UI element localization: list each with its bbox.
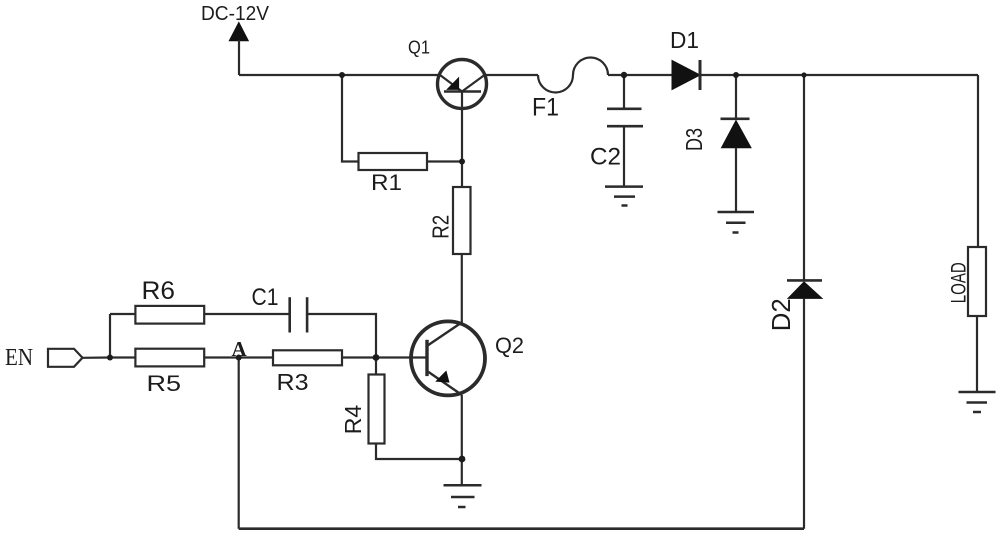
svg-text:Q2: Q2 (495, 333, 524, 358)
svg-text:R3: R3 (277, 369, 309, 395)
wire: fuse to D1 (608, 74, 672, 76)
junction on rail at C2 branch (621, 72, 627, 78)
wire: junction to R5 (110, 356, 135, 358)
wire: R1 left stem (342, 75, 359, 162)
diode D1 (672, 60, 700, 90)
wire: to R6 (110, 313, 135, 315)
resistor R1 (359, 153, 428, 170)
wire: R6 to C1 (204, 313, 290, 315)
svg-text:R4: R4 (340, 405, 366, 435)
svg-text:Q1: Q1 (408, 37, 430, 58)
fuse F1 (538, 57, 608, 92)
diode D3 (721, 75, 752, 212)
transistor Q2 (411, 321, 485, 395)
wire: D1 to right corner (700, 74, 978, 76)
svg-text:C1: C1 (252, 284, 279, 311)
wire: rail Q1 to fuse (485, 74, 538, 76)
wire: right edge vertical (977, 75, 979, 247)
ground under LOAD (959, 392, 996, 412)
wire: node A down (238, 358, 240, 529)
load resistor body (968, 247, 986, 316)
wire: R1 right (427, 160, 462, 162)
wire: power stem (238, 40, 240, 75)
junction on rail at R1 branch (339, 72, 345, 78)
wire: R2 to Q2 collector (461, 254, 463, 324)
transistor Q1 (438, 60, 487, 109)
junction R4 to Q2 emitter (459, 456, 466, 463)
ground under D3 (718, 212, 755, 233)
wire: Q2 emitter down (461, 395, 463, 485)
wire: R3 to Q2 base (342, 356, 427, 358)
svg-text:R2: R2 (427, 215, 453, 239)
wire: top rail left (239, 74, 440, 76)
svg-text:R6: R6 (142, 277, 176, 305)
resistor R5 (135, 349, 204, 367)
junction EN input node (107, 355, 113, 361)
svg-text:F1: F1 (532, 94, 559, 122)
wire: C1 to branch corner (307, 314, 376, 358)
resistor R2 (453, 187, 471, 254)
wire: Q1 base down to R2 (461, 92, 463, 188)
wire: EN to junction (83, 356, 111, 358)
svg-text:A: A (232, 337, 248, 361)
resistor R3 (273, 350, 342, 365)
svg-text:DC-12V: DC-12V (201, 2, 269, 25)
power symbol DC-12V arrow (229, 23, 248, 41)
node A junction (236, 355, 242, 361)
svg-text:D1: D1 (670, 27, 699, 53)
junction R3/R4/C1 branch (373, 354, 380, 361)
svg-text:D3: D3 (681, 128, 707, 151)
resistor R4 (369, 358, 463, 460)
wire: branch vertical left (109, 314, 111, 358)
ground under C2 (605, 187, 643, 206)
svg-text:EN: EN (5, 345, 33, 371)
svg-text:LOAD: LOAD (947, 262, 970, 303)
junction R1 to Q1 base (459, 159, 465, 165)
resistor R6 (135, 306, 204, 324)
svg-text:C2: C2 (590, 144, 621, 171)
junction on rail at D2 branch (801, 72, 806, 77)
wire: load to ground (976, 316, 978, 392)
capacitor C2 (607, 75, 643, 187)
diode D2 (787, 75, 822, 529)
ground under Q2 (444, 485, 482, 507)
svg-text:D2: D2 (766, 298, 796, 331)
junction on rail at D3 branch (733, 72, 739, 78)
svg-text:R5: R5 (147, 371, 182, 396)
wire: node A to R3 (239, 356, 273, 358)
wire: R5 to node A (204, 356, 239, 358)
capacitor C1 (290, 297, 307, 332)
wire: bottom run (239, 527, 804, 530)
connector EN (48, 349, 83, 367)
svg-text:R1: R1 (371, 170, 402, 195)
